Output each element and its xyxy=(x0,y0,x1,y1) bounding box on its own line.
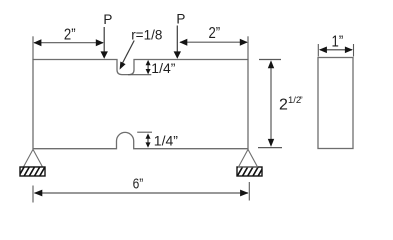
svg-text:P: P xyxy=(103,12,112,27)
svg-text:6”: 6” xyxy=(133,175,144,192)
svg-text:1/4”: 1/4” xyxy=(151,60,175,76)
svg-text:”: ” xyxy=(300,95,303,105)
svg-text:2: 2 xyxy=(279,97,288,114)
svg-text:2”: 2” xyxy=(209,25,221,42)
svg-text:2”: 2” xyxy=(64,26,76,43)
svg-text:P: P xyxy=(176,12,185,27)
svg-text:r=1/8: r=1/8 xyxy=(131,27,162,42)
svg-text:1/4”: 1/4” xyxy=(154,133,178,149)
svg-text:1”: 1” xyxy=(332,34,344,51)
